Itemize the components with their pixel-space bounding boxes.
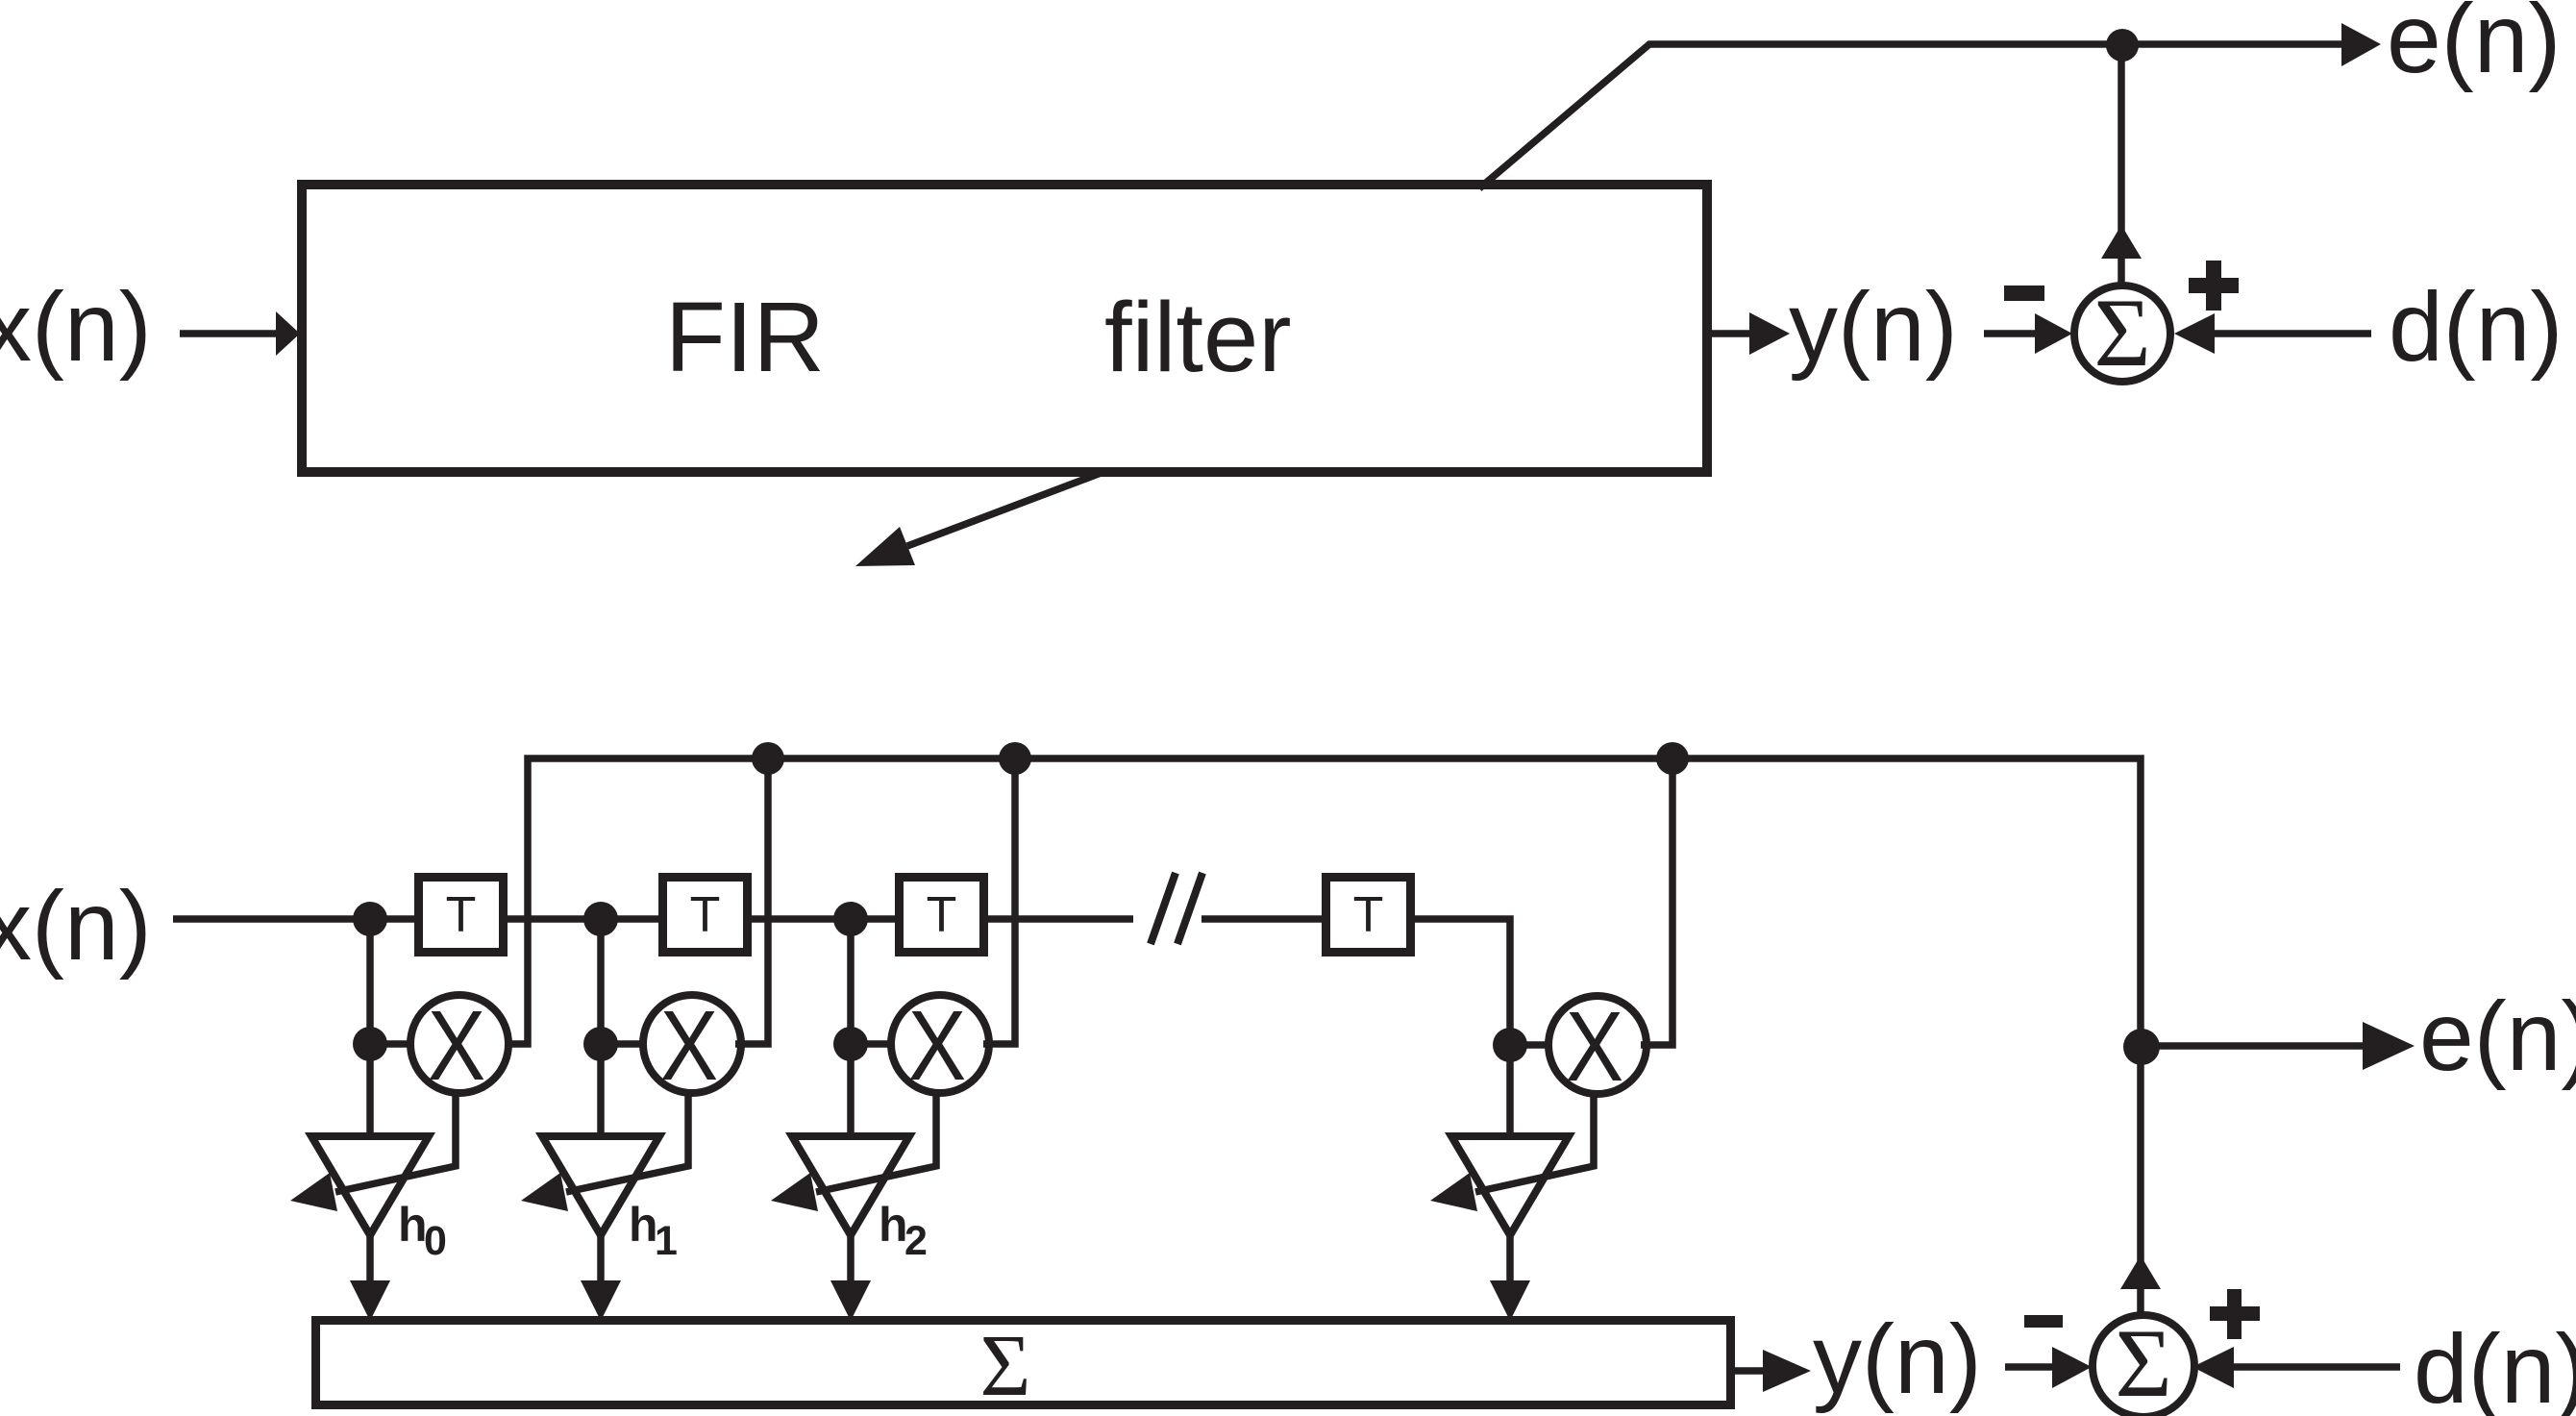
summation bar SIGMA (316, 1321, 1731, 1405)
wire tap 2 dot to multiplier M2 (601, 1040, 643, 1048)
plus sign at top summer (2189, 261, 2239, 311)
svg-text:h: h (629, 1198, 658, 1252)
svg-text:e(n): e(n) (2387, 0, 2561, 93)
wire tap 3 dot to multiplier M3 (851, 1040, 891, 1048)
wire tap 2 vertical down to gain triangle (597, 919, 605, 1136)
node junction dot tap 4 at multiplier row (1493, 1028, 1527, 1062)
svg-text:X: X (428, 990, 485, 1102)
multiplier M1 circle (410, 995, 508, 1093)
arrowhead of adjustment arrow G3 (771, 1173, 818, 1211)
svg-text:2: 2 (904, 1218, 928, 1264)
wire tap 1 vertical down to gain triangle (366, 919, 374, 1136)
node junction dot e(n) bottom (2123, 1029, 2160, 1065)
wire d(n) into bottom summer with arrowhead (2192, 1347, 2400, 1388)
node junction dot tap 2 at multiplier row (583, 1027, 618, 1061)
wire expansion arrow from FIR box bottom, pointing down-left (855, 472, 1103, 566)
svg-text:X: X (1566, 991, 1623, 1103)
wire gain G4 output into summation bar with arrowhead (1490, 1235, 1530, 1321)
wire multiplier M4 output down and adjustment diagonal through gain triangle G4 (1475, 1093, 1594, 1192)
coefficient label h2 (879, 1198, 928, 1264)
svg-text:1: 1 (655, 1218, 678, 1264)
delay element T4 box (1326, 878, 1411, 953)
svg-text:h: h (879, 1198, 908, 1252)
svg-text:T: T (690, 887, 721, 943)
arrowhead of adjustment arrow G1 (290, 1173, 337, 1211)
wire multiplier M1 output down and adjustment diagonal through gain triangle G1 (335, 1093, 456, 1192)
wire y(n) into bottom summer with arrowhead (2005, 1347, 2092, 1388)
svg-text:X: X (908, 990, 966, 1102)
summer U3 sigma circle bottom (2093, 1315, 2194, 1416)
node junction dot on bus for tap 2 (752, 742, 784, 775)
FIR filter block U1 (302, 185, 1707, 472)
coefficient label h1 (629, 1198, 678, 1264)
svg-text:d(n): d(n) (2389, 272, 2563, 382)
minus sign at bottom summer (2024, 1315, 2063, 1328)
svg-text:T: T (1353, 887, 1384, 943)
node junction dot tap 1 at multiplier row (353, 1027, 387, 1061)
wire gain G3 output into summation bar with arrowhead (830, 1235, 871, 1321)
svg-text:Σ: Σ (2093, 279, 2150, 387)
arrowhead up into e(n) line from bottom summer (2120, 1255, 2161, 1289)
svg-text:e(n): e(n) (2419, 981, 2576, 1091)
wire line break to delay T4 (1201, 915, 1325, 923)
node junction dot tap 3 on signal line (833, 902, 868, 936)
delay element T2 box (663, 878, 748, 953)
top bus wire carrying e(n) feedback (with left drop to M1 and right drop to bottom summer) (510, 758, 2141, 1318)
wire bus drop to multiplier M4 (1641, 758, 1672, 1045)
wire bus drop to multiplier M3 (983, 758, 1015, 1044)
gain triangle G1 (adjustable coefficient) (311, 1136, 429, 1235)
gain triangle G3 (adjustable coefficient) (792, 1136, 909, 1235)
plus sign at bottom summer (2210, 1289, 2260, 1339)
node junction dot tap 1 on signal line (353, 902, 387, 936)
svg-text:filter: filter (1104, 282, 1292, 392)
wire T1 to T2 (504, 915, 662, 923)
wire T4 output elbow down to tap 4 (1410, 919, 1510, 1136)
node junction dot on bus for tap 4 (1656, 742, 1689, 775)
wire gain G1 output into summation bar with arrowhead (350, 1235, 390, 1321)
arrowhead up on summer output (2101, 225, 2142, 259)
multiplier M2 circle (643, 995, 741, 1093)
wire x(n) into FIR box with arrowhead (180, 311, 300, 356)
wire multiplier M2 output down and adjustment diagonal through gain triangle G2 (566, 1093, 688, 1192)
svg-text:x(n): x(n) (0, 871, 152, 981)
svg-text:X: X (660, 990, 718, 1102)
wire T2 to T3 (748, 915, 899, 923)
wire e(n) feedback: diagonal from FIR box top then horizontal line with arrowhead (1479, 23, 2381, 188)
svg-text:d(n): d(n) (2414, 1314, 2576, 1416)
wire tap 4 dot to multiplier M4 (1510, 1041, 1548, 1049)
wire summation bar output to y(n) with arrowhead (1735, 1350, 1811, 1392)
multiplier M4 circle (1548, 996, 1647, 1094)
svg-text:y(n): y(n) (1789, 272, 1958, 382)
minus sign at top summer (2004, 286, 2044, 301)
node junction dot tap 2 on signal line (583, 902, 618, 936)
gain triangle G2 (adjustable coefficient) (542, 1136, 659, 1235)
svg-text:0: 0 (424, 1218, 447, 1264)
arrowhead of adjustment arrow G2 (521, 1173, 568, 1211)
wire T3 to line break (984, 915, 1133, 923)
arrowhead of adjustment arrow G4 (1430, 1173, 1477, 1211)
svg-text:y(n): y(n) (1813, 1304, 1982, 1414)
wire FIR output to y(n) with arrowhead (1712, 312, 1790, 355)
summer U2 sigma circle top (2074, 286, 2170, 382)
delay element T3 box (900, 878, 984, 953)
delay element T1 box (419, 878, 504, 953)
coefficient label h0 (398, 1198, 447, 1264)
wire d(n) into top summer with arrowhead (2174, 313, 2371, 354)
svg-text:Σ: Σ (980, 1317, 1031, 1414)
svg-text:T: T (446, 887, 477, 943)
svg-text:T: T (927, 887, 957, 943)
svg-text:FIR: FIR (665, 282, 825, 392)
multiplier M3 circle (891, 995, 989, 1093)
wire tap 1 dot to multiplier M1 (370, 1040, 410, 1048)
wire top summer output up to e(n) line (2118, 44, 2125, 286)
node junction dot tap 3 at multiplier row (833, 1027, 868, 1061)
line break slash 1 (1151, 873, 1176, 944)
svg-text:Σ: Σ (2115, 1309, 2171, 1416)
line break slash 2 (1177, 873, 1202, 944)
node junction dot on bus for tap 3 (999, 742, 1031, 775)
wire y(n) into top summer with arrowhead (1984, 313, 2072, 354)
wire x(n) to delay T1 (173, 915, 418, 923)
wire multiplier M3 output down and adjustment diagonal through gain triangle G3 (816, 1093, 936, 1192)
wire bus drop to multiplier M2 (735, 758, 768, 1044)
svg-text:x(n): x(n) (0, 272, 152, 382)
wire e(n) output bottom with arrowhead (2142, 1022, 2415, 1070)
wire tap 3 vertical down to gain triangle (847, 919, 855, 1136)
node junction dot on e(n) line top (2106, 29, 2139, 62)
wire gain G2 output into summation bar with arrowhead (581, 1235, 621, 1321)
gain triangle G4 (adjustable coefficient) (1451, 1136, 1569, 1235)
svg-text:h: h (398, 1198, 428, 1252)
